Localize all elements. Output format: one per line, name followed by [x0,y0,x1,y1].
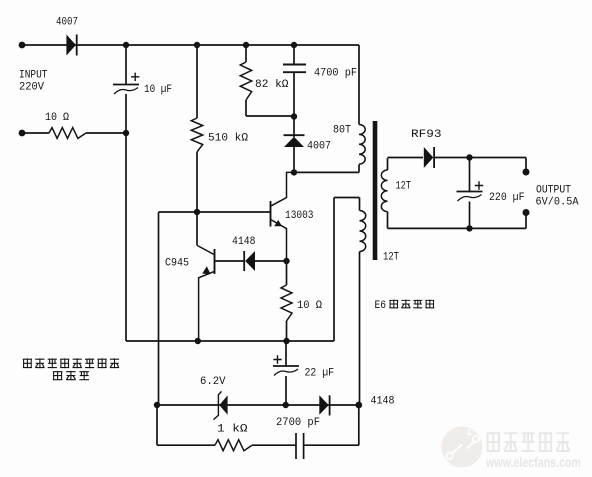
wire R1 to node [86,132,126,134]
svg-text:RF93: RF93 [411,129,442,141]
wire D4 to emitter node [255,260,287,262]
wire base rail y212 [159,211,271,213]
wire secondary top [388,157,424,159]
node A rectified rail at C1 [123,42,129,48]
node zener rail left [154,402,160,408]
transistor Q2 C945 [196,212,198,246]
transformer secondary winding 12T [387,158,389,170]
capacitor C2 4700pF [293,45,295,65]
svg-text:www.elecfans.com: www.elecfans.com [485,455,581,470]
wire zener rail y405 [157,404,360,406]
svg-text:10 Ω: 10 Ω [45,112,69,124]
node D2 anode junction [291,113,297,119]
node at R2 510k top [194,42,200,48]
node at R3 82k top [243,42,249,48]
svg-text:E6: E6 [375,300,387,312]
diode D5 4148 bottom [319,395,328,415]
wire primary top drop [358,45,360,125]
node input top terminal [19,42,26,49]
svg-text:10 Ω: 10 Ω [297,300,322,312]
resistor R4 10 ohm emitter [286,261,288,285]
svg-text:510 kΩ: 510 kΩ [208,133,248,145]
transistor Q1 13003 [270,201,272,227]
svg-text:82 kΩ: 82 kΩ [255,79,289,91]
svg-text:220V: 220V [19,82,44,94]
svg-text:2700 pF: 2700 pF [276,417,320,429]
diode D2 4007 flyback [293,117,295,138]
svg-text:13003: 13003 [285,210,314,222]
caption title line1 [23,358,32,368]
resistor R5 1k [215,440,252,451]
svg-text:4007: 4007 [56,17,78,29]
zener diode Z1 6.2V [213,391,221,419]
resistor R3 82k [245,45,247,62]
wire R3 bottom to node [246,115,294,117]
svg-text:6.2V: 6.2V [200,376,226,388]
capacitor C4 220uF [469,158,471,192]
transformer feedback winding 12T [334,197,360,199]
diode D3 RF93 [424,147,434,168]
wire bottom loop left [156,405,158,445]
node C1 bottom junction [123,130,129,136]
node output minus terminal [523,209,530,216]
node zener rail right [355,402,362,409]
svg-text:4148: 4148 [232,236,256,248]
node emitter junction [283,258,289,264]
svg-text:OUTPUT: OUTPUT [536,185,571,197]
wire primary bottom [358,165,360,173]
svg-text:22 µF: 22 µF [305,368,335,380]
svg-text:10 µF: 10 µF [144,84,172,96]
wire output bottom rail [388,227,527,229]
node C4 top [466,154,472,160]
wire output top corner [525,158,527,173]
wire left drop x126 [125,133,127,341]
transformer primary winding 80T [359,125,365,165]
wire D3 to output [435,157,527,159]
capacitor C5 22uF [285,341,287,366]
diode D1 4007 [66,35,76,56]
node Q2 emitter at rail [195,338,201,344]
svg-text:12T: 12T [383,252,399,264]
wire bottom loop right riser [358,405,360,445]
wire node to primary bottom [294,171,359,173]
wire left drop x158 [158,212,160,405]
resistor R2 510k [196,45,198,118]
svg-text:220 µF: 220 µF [489,192,525,204]
node R4 bottom at rail [283,338,289,344]
capacitor C1 10uF [125,45,127,84]
svg-text:12T: 12T [396,181,412,193]
svg-text:6V/0.5A: 6V/0.5A [536,197,579,209]
wire common rail y341 [126,340,334,342]
capacitor C6 2700pF [296,433,304,459]
node R2 bottom junction [194,209,200,215]
wire feedback drop x334 [333,198,335,342]
node at C2 4700pF top [291,42,297,48]
wire Q2 base [215,260,245,262]
caption title line2 [53,371,63,380]
transformer core [373,121,378,260]
node zener rail mid [283,402,289,408]
watermark elecfans logo [442,427,483,468]
diode D4 4148 [245,251,255,271]
svg-text:4700 pF: 4700 pF [314,68,357,80]
node collector junction [291,169,297,175]
svg-text:C945: C945 [165,258,189,270]
wire top rail [22,44,359,46]
svg-text:4007: 4007 [307,141,331,153]
svg-text:INPUT: INPUT [19,70,48,82]
node output plus terminal [523,169,530,176]
node C4 bottom [466,225,472,231]
svg-text:4148: 4148 [371,396,395,408]
wire C6 to right riser [304,444,359,446]
wire bottom loop to R5 [157,444,215,446]
wire R5 to C6 [252,444,296,446]
svg-text:1 kΩ: 1 kΩ [217,424,248,436]
wire input bottom stub [22,132,49,134]
svg-text:80T: 80T [333,125,351,137]
node input bottom terminal [19,130,26,137]
resistor R1 10 ohm input [49,128,86,139]
wire output bottom corner [525,213,527,229]
